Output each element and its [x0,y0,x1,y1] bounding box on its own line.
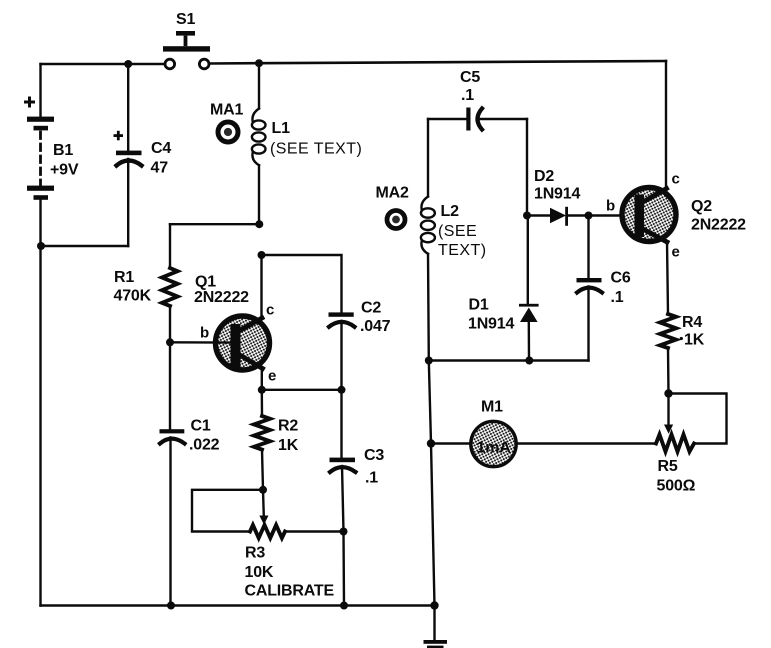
svg-text:C5: C5 [460,69,480,86]
ferrite MA1 [218,122,238,142]
svg-text:b: b [606,198,615,215]
node collector junction [258,251,266,259]
svg-text:C2: C2 [361,300,381,317]
wire tank bottom rail [429,359,589,361]
node R2 bottom / wiper junction [259,486,267,494]
transistor Q1 [170,316,270,370]
svg-text:500Ω: 500Ω [657,478,696,495]
capacitor C1 [160,429,185,605]
svg-text:b: b [200,325,209,342]
svg-text:R2: R2 [278,418,298,435]
svg-text:M1: M1 [481,399,503,416]
svg-text:S1: S1 [176,11,195,28]
node emitter junction [258,386,266,394]
potentiometer R3 [250,490,285,538]
svg-text:+9V: +9V [50,162,79,179]
wire battery bottom to C4 bottom [41,245,128,247]
node battery bottom junction [37,242,45,250]
svg-text:D2: D2 [534,168,554,185]
svg-text:TEXT): TEXT) [438,242,486,259]
svg-text:(SEE: (SEE [438,223,477,240]
capacitor C2 [329,312,355,389]
svg-text:D1: D1 [469,297,489,314]
transistor Q2 [622,188,676,243]
wire meter left to column [431,442,470,444]
svg-text:(SEE TEXT): (SEE TEXT) [270,141,362,158]
node bottom rail C1 [167,602,175,610]
label C4 + polarity [114,134,124,137]
wire base junction to Q2 [589,214,636,216]
capacitor C6 [577,216,603,361]
svg-text:2N2222: 2N2222 [194,289,249,306]
ferrite MA2 [387,211,405,229]
wire wiper loop left [192,490,263,532]
resistor R1 [162,268,178,306]
svg-text:47: 47 [151,160,169,177]
resistor R4 [660,314,676,348]
svg-text:R3: R3 [245,545,265,562]
diode D1 [519,216,539,361]
wire top rail left (battery top to S1) [41,63,166,65]
wire C5 left leg down [427,119,429,197]
svg-text:R4: R4 [682,314,702,331]
svg-text:c: c [672,171,680,188]
svg-text:MA2: MA2 [376,185,409,202]
svg-text:2N2222: 2N2222 [691,217,746,234]
potentiometer R5 [656,394,694,452]
svg-text:R1: R1 [114,269,134,286]
svg-text:C4: C4 [151,140,171,157]
svg-text:.022: .022 [189,437,220,454]
wire Q1 emitter down [261,368,263,390]
wire R3 right to C3 bottom node [285,530,344,532]
node Q1 base junction [166,338,174,346]
wire C2 junction down to C3 [340,390,342,458]
wire collector junction to C2 top [262,255,342,312]
wire emitter to C2 bottom [262,389,342,391]
wire R1 bottom to base node [169,306,171,342]
wire bottom rail [41,604,435,606]
wire top rail right (S1 to Q2 collector corner) [210,61,667,64]
svg-text:L2: L2 [441,203,460,220]
node L2 bottom junction [425,357,433,365]
node D2 anode junction [523,212,531,220]
svg-text:470K: 470K [114,288,152,305]
node C2 bottom junction [338,386,346,394]
wire base node to C1 [169,342,171,429]
svg-text:.1: .1 [611,289,624,306]
svg-text:C3: C3 [364,447,384,464]
capacitor C5 [428,108,527,131]
wire meter node down to ground rail [431,444,435,606]
capacitor C3 [330,458,356,532]
wire R4 bottom to wiper node [667,348,670,394]
svg-text:.1: .1 [461,87,474,104]
svg-text:CALIBRATE: CALIBRATE [245,583,335,600]
inductor L1 [252,63,266,224]
node bottom rail ground [430,601,438,609]
node bottom rail C3 [340,602,348,610]
wire C5 right leg down [526,119,528,216]
battery B1 [27,64,54,246]
wire left rail down [39,246,41,606]
svg-text:e: e [672,244,680,261]
ground [424,606,448,648]
svg-text:1N914: 1N914 [468,316,514,333]
resistor R2 [254,390,270,490]
svg-text:1mA: 1mA [477,440,512,457]
wire Q2 collector to top rail [665,61,667,189]
inductor L2 [421,197,435,361]
node Q2 base junction [585,212,593,220]
node R5 wiper junction [664,389,672,397]
svg-text:.047: .047 [360,318,391,335]
svg-text:Q1: Q1 [195,274,216,291]
node meter junction [427,439,435,447]
wire Q1 collector up [260,255,262,319]
wire R5 left to meter [518,442,656,444]
svg-text:1K: 1K [278,437,299,454]
svg-text:1K: 1K [684,332,705,349]
meter M1 [471,421,516,466]
svg-text:L1: L1 [272,120,291,137]
svg-text:1N914: 1N914 [534,186,580,203]
capacitor C4 [116,64,142,246]
svg-text:e: e [268,368,276,385]
node C4 top junction [124,60,132,68]
svg-text:Q2: Q2 [691,198,712,215]
wire tank bottom to meter node [429,361,431,444]
wire wiper loop right [669,394,727,444]
svg-text:.1: .1 [365,470,378,487]
svg-text:C1: C1 [191,418,211,435]
wire Q2 emitter down to R4 [667,242,668,315]
node R3/C3 junction [340,528,348,536]
svg-text:R5: R5 [658,458,678,475]
svg-text:c: c [266,302,274,319]
node D1 bottom junction [525,357,533,365]
node L1 bottom / R1 top junction [255,220,263,228]
diode D2 [527,207,589,226]
wire L1 junction to R1 top [170,223,259,225]
label B1 + polarity [24,101,35,104]
svg-text:10K: 10K [245,564,274,581]
svg-text:MA1: MA1 [210,102,243,119]
svg-text:C6: C6 [611,270,631,287]
switch S1 [163,31,210,69]
wire down to bottom rail [342,532,345,606]
node L1 top junction [255,59,263,67]
svg-text:B1: B1 [53,142,73,159]
